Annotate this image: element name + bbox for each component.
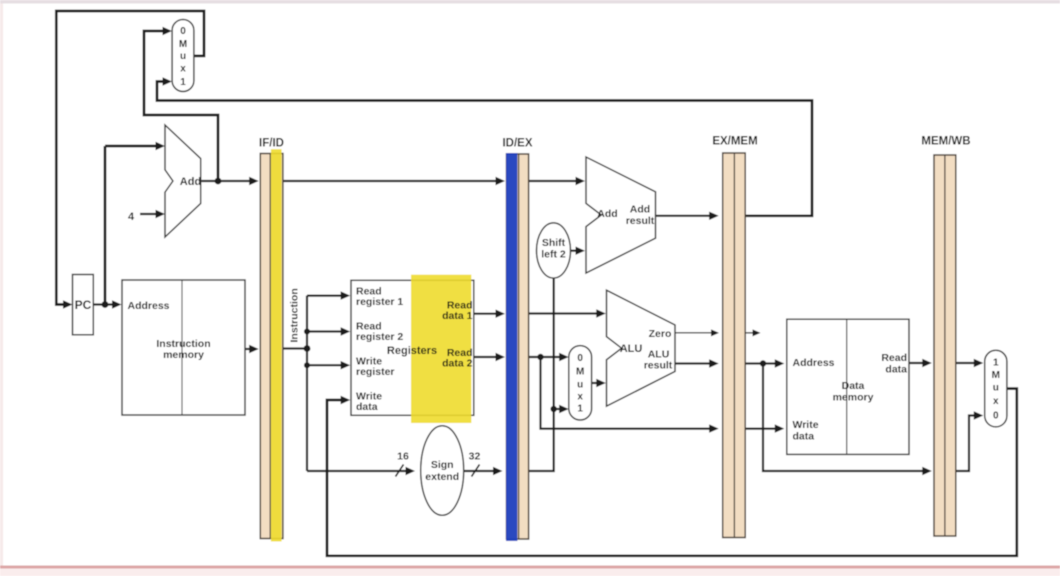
svg-text:u: u xyxy=(577,380,583,391)
svg-text:data 2: data 2 xyxy=(442,358,473,370)
svg-text:4: 4 xyxy=(128,211,135,223)
svg-text:Sign: Sign xyxy=(431,459,454,471)
svg-text:M: M xyxy=(576,367,584,378)
svg-text:u: u xyxy=(180,51,186,62)
svg-text:x: x xyxy=(993,396,999,407)
svg-text:Zero: Zero xyxy=(649,328,672,340)
svg-text:Add: Add xyxy=(597,208,617,220)
svg-text:u: u xyxy=(993,383,999,394)
svg-text:result: result xyxy=(626,215,655,227)
svg-text:ALU: ALU xyxy=(620,343,643,355)
svg-text:Read: Read xyxy=(881,352,907,364)
svg-text:0: 0 xyxy=(180,26,186,37)
svg-text:Registers: Registers xyxy=(387,345,437,357)
svg-text:data: data xyxy=(793,431,815,443)
svg-text:register: register xyxy=(356,366,395,378)
svg-text:data: data xyxy=(356,401,378,413)
svg-text:1: 1 xyxy=(180,77,186,88)
svg-text:0: 0 xyxy=(577,353,583,364)
svg-text:0: 0 xyxy=(993,411,999,422)
svg-text:32: 32 xyxy=(469,451,481,463)
svg-text:Shift: Shift xyxy=(542,237,566,249)
svg-text:x: x xyxy=(180,64,186,75)
svg-text:left 2: left 2 xyxy=(541,249,566,261)
svg-text:M: M xyxy=(992,370,1000,381)
svg-text:IF/ID: IF/ID xyxy=(259,138,284,150)
svg-text:Add: Add xyxy=(630,204,650,216)
svg-text:EX/MEM: EX/MEM xyxy=(712,136,757,148)
svg-text:memory: memory xyxy=(163,349,204,361)
svg-text:Add: Add xyxy=(180,176,201,188)
svg-text:Data: Data xyxy=(842,380,865,392)
svg-text:extend: extend xyxy=(425,471,459,483)
svg-text:M: M xyxy=(179,39,187,50)
svg-text:ID/EX: ID/EX xyxy=(502,138,532,150)
svg-text:data: data xyxy=(885,364,907,376)
svg-text:memory: memory xyxy=(833,392,874,404)
svg-text:Write: Write xyxy=(793,419,819,431)
svg-text:MEM/WB: MEM/WB xyxy=(921,136,970,148)
svg-text:Instruction: Instruction xyxy=(288,288,300,342)
svg-text:PC: PC xyxy=(75,298,92,312)
svg-text:16: 16 xyxy=(397,451,409,463)
svg-text:register 1: register 1 xyxy=(356,296,403,308)
svg-text:register 2: register 2 xyxy=(356,331,403,343)
svg-text:data 1: data 1 xyxy=(442,310,473,322)
svg-text:1: 1 xyxy=(577,404,583,415)
svg-text:Address: Address xyxy=(128,300,170,312)
svg-text:Address: Address xyxy=(793,357,835,369)
svg-text:result: result xyxy=(644,360,673,372)
svg-text:x: x xyxy=(577,392,583,403)
svg-text:1: 1 xyxy=(993,358,999,369)
